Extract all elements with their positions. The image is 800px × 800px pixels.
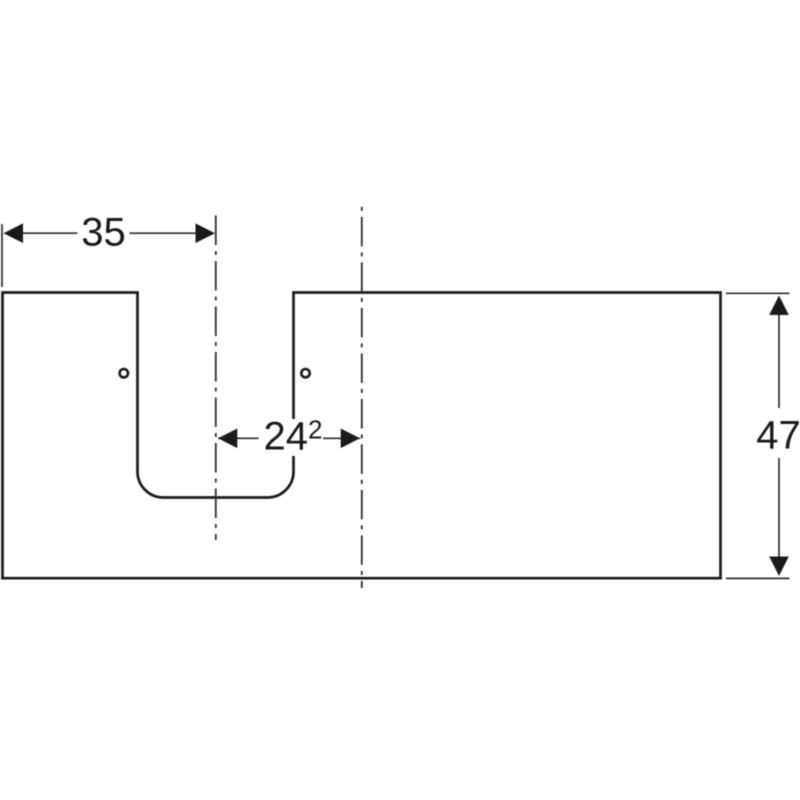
dim 47 arrow down [769,557,789,577]
centerline A [215,216,217,541]
dim 47 line upper segment [778,313,780,408]
hole circle left [120,369,128,377]
dim 47 line lower segment [778,458,780,558]
dim 35 arrow right [196,223,216,243]
dim 24 line [218,437,360,439]
centerline B [361,207,363,588]
dim 24 arrow right [341,429,360,449]
svg-text:47: 47 [756,414,800,458]
dim 24 arrow left [218,429,237,449]
countertop outline with U-shaped cut-out [3,293,721,579]
dim 47 arrow up [769,296,789,316]
dim 35 extension line [1,224,3,287]
dim 47 top extension line [726,292,790,294]
dim 35 line right segment [130,232,198,234]
dim 35 arrow left [4,223,24,243]
dim 47 bottom extension line [726,577,790,579]
hole circle right [301,369,309,377]
dim 35 line left segment [21,232,78,234]
dim 24 label halo [259,419,324,456]
svg-text:35: 35 [81,210,126,254]
